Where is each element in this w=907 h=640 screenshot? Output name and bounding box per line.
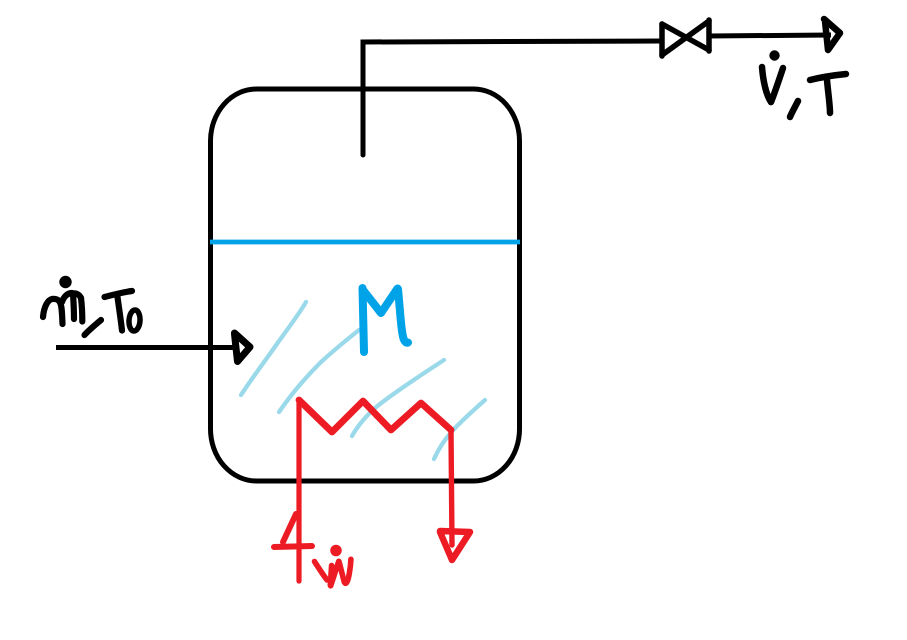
- liquid level line: [210, 240, 520, 245]
- water hatch stroke 2: [279, 330, 359, 412]
- label m-dot, T0 (inlet): [43, 279, 141, 335]
- flow arrowhead (outlet): [824, 19, 840, 50]
- label W-dot (work): [315, 548, 351, 586]
- work arrowhead down (right lead): [440, 531, 470, 560]
- water hatch stroke 4: [434, 400, 485, 459]
- outlet pipe: [363, 41, 662, 155]
- label V-dot, T (outlet): [762, 51, 846, 117]
- tank vessel: [211, 89, 520, 481]
- water hatch stroke 1: [241, 302, 306, 395]
- heater left lead: [296, 400, 301, 581]
- work arrowhead up (left lead): [274, 514, 312, 547]
- outlet line after valve: [709, 35, 831, 36]
- label M (liquid mass): [363, 288, 409, 352]
- valve: [662, 20, 709, 56]
- inlet arrow line: [56, 345, 237, 350]
- water hatch stroke 3: [352, 360, 444, 436]
- inlet arrowhead: [235, 333, 251, 362]
- heater coil (red zigzag): [299, 400, 451, 432]
- heater right lead: [451, 430, 452, 545]
